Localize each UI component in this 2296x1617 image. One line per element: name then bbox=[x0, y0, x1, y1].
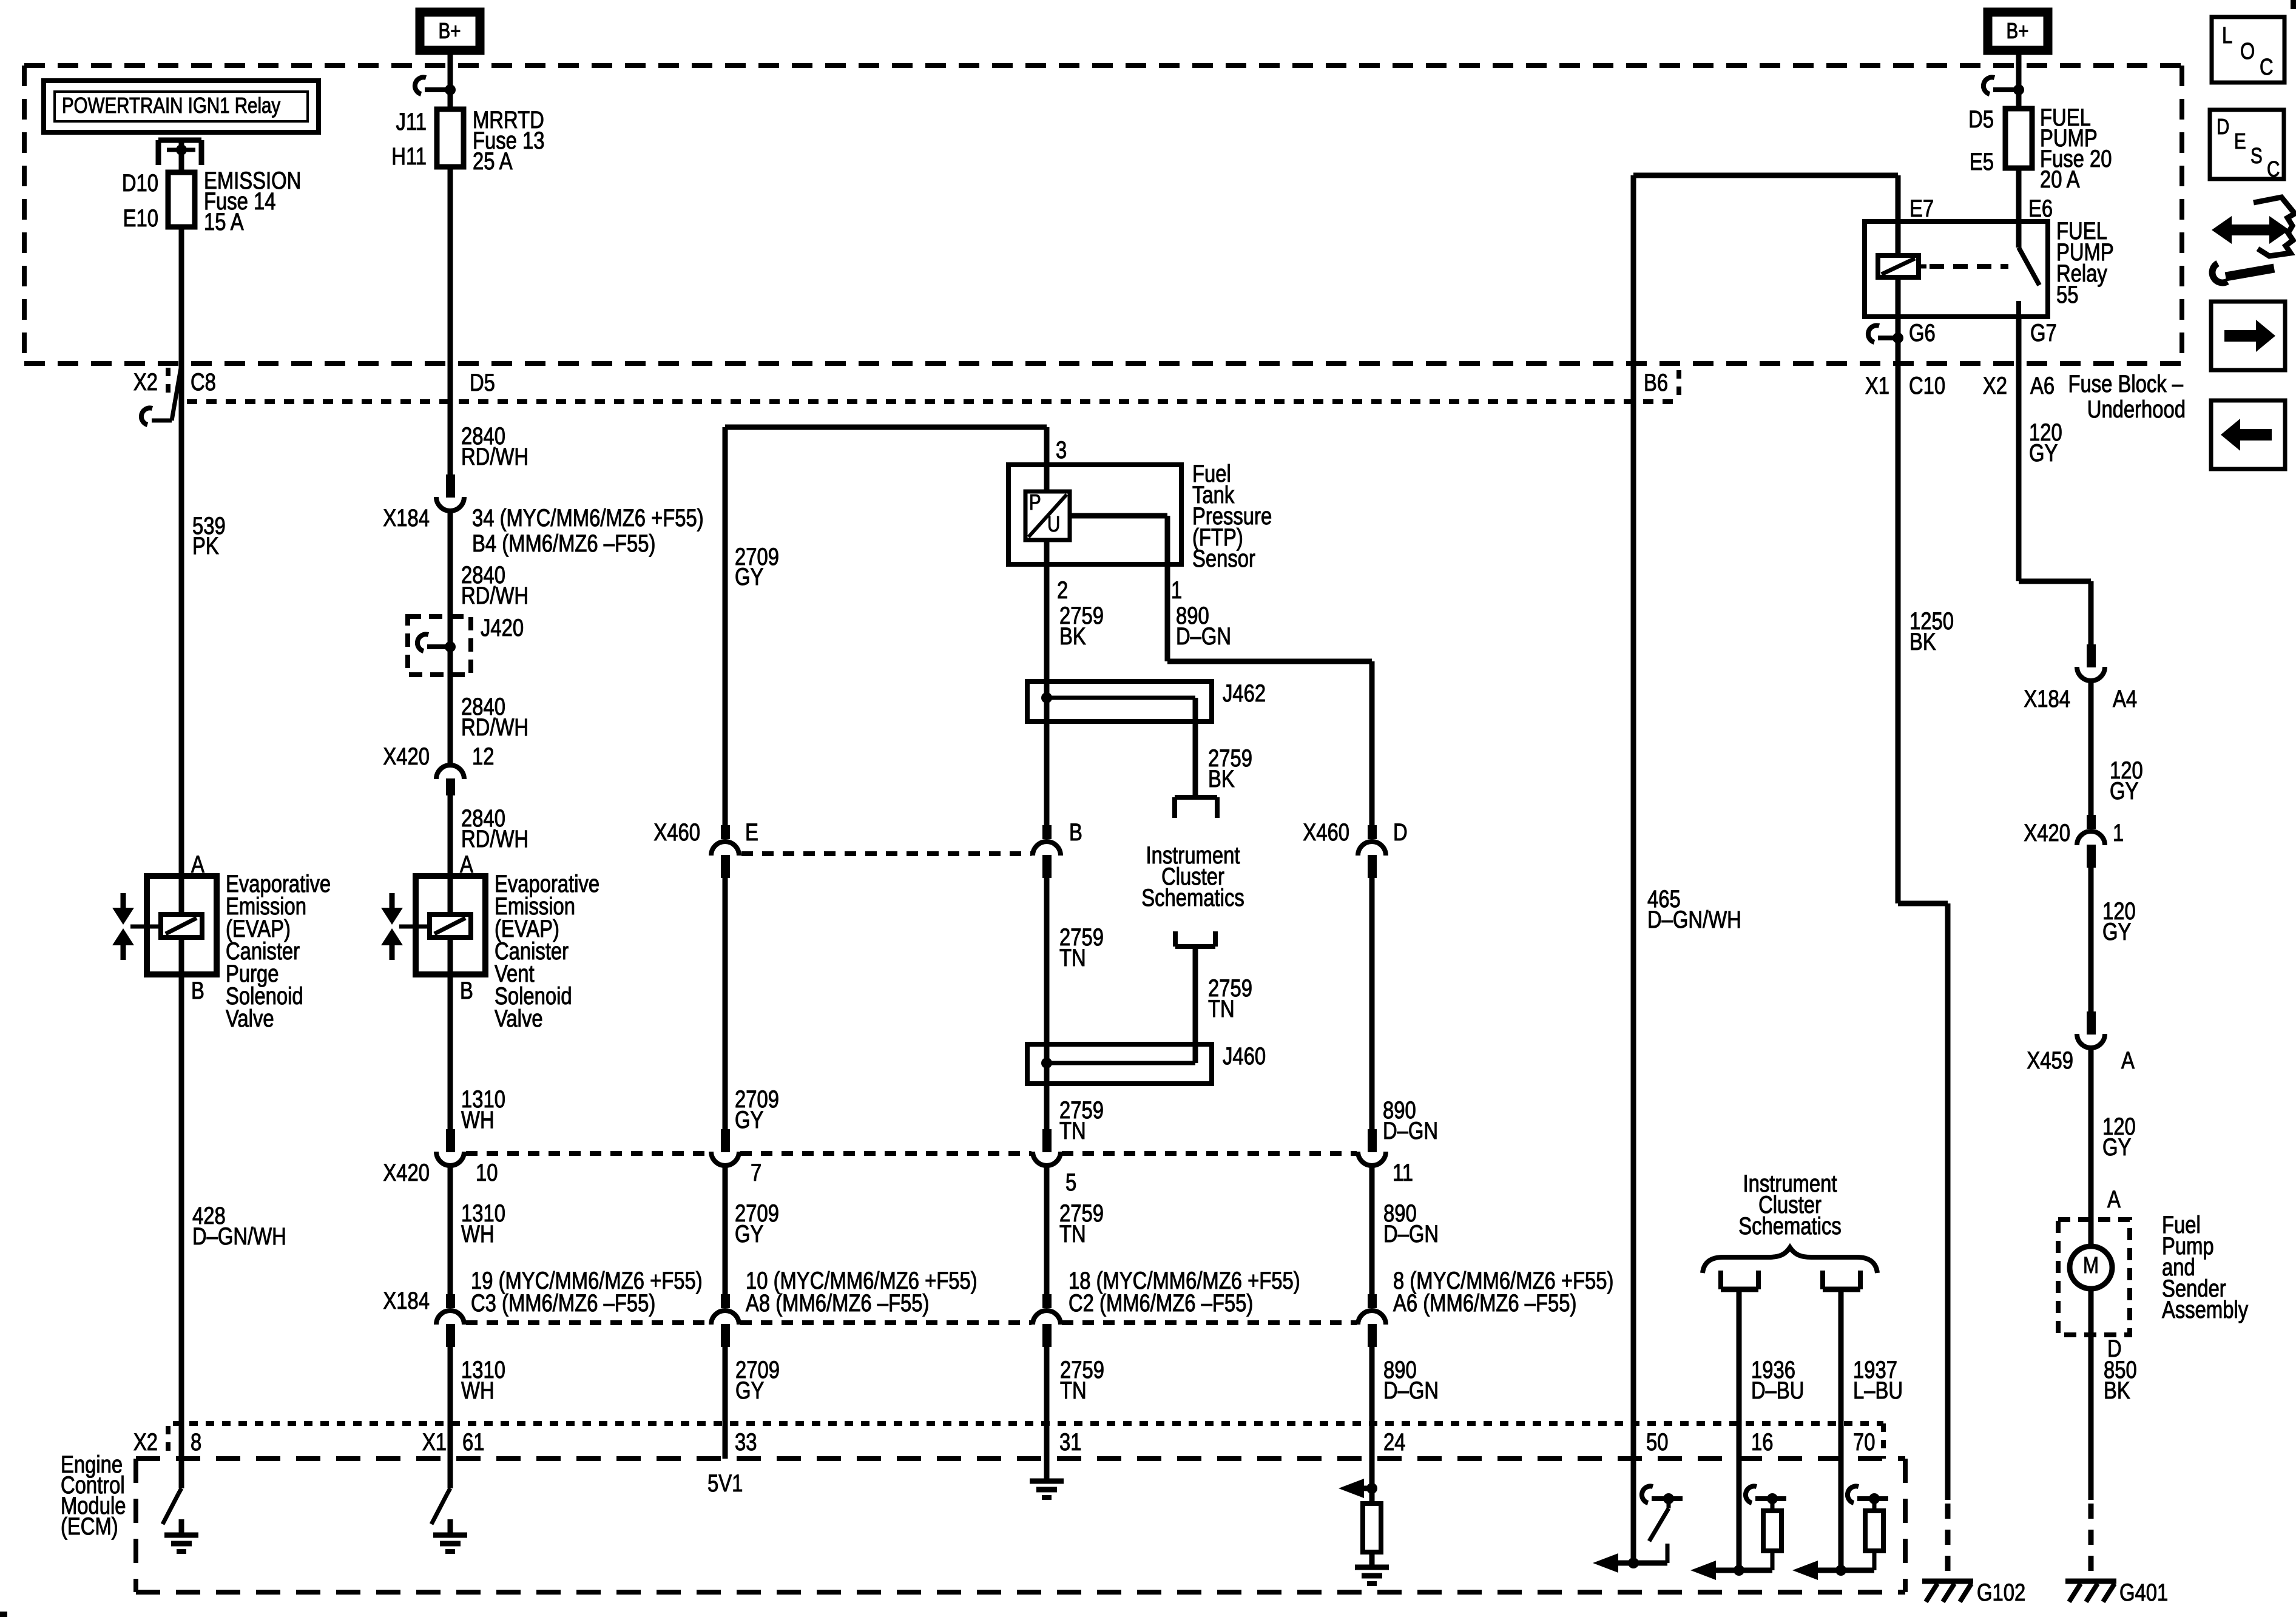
fuel pump motor symbol bbox=[2070, 1246, 2112, 1289]
fuse F20 FUEL PUMP Fuse 20 20A bbox=[2005, 109, 2032, 168]
svg-text:C: C bbox=[2260, 55, 2274, 80]
wire FTP pin 1 890 D-GN jog bbox=[1070, 513, 1167, 519]
svg-text:D–GN: D–GN bbox=[1383, 1220, 1439, 1247]
instrument cluster brace bbox=[1703, 1247, 1877, 1273]
connector X2 C8 exit blade and curl bbox=[172, 365, 181, 420]
ECM internal switch at pin 61 bbox=[447, 1488, 450, 1494]
svg-text:Valve: Valve bbox=[495, 1005, 543, 1032]
svg-text:GY: GY bbox=[2102, 918, 2131, 945]
connector X460 pin E bbox=[721, 825, 730, 839]
svg-text:G401: G401 bbox=[2119, 1579, 2168, 1606]
separator dash right of B6 bbox=[1676, 370, 1681, 396]
svg-text:E10: E10 bbox=[123, 204, 158, 232]
svg-text:B+: B+ bbox=[2007, 18, 2029, 42]
svg-text:5: 5 bbox=[1065, 1169, 1076, 1196]
connector X184 pin A6 bbox=[1368, 1294, 1377, 1308]
connector X460 pin D bbox=[1368, 825, 1377, 839]
svg-text:D–GN: D–GN bbox=[1383, 1377, 1439, 1404]
svg-text:G6: G6 bbox=[1909, 319, 1936, 346]
svg-text:X459: X459 bbox=[2027, 1047, 2073, 1074]
svg-text:D10: D10 bbox=[122, 169, 158, 197]
svg-text:C8: C8 bbox=[191, 368, 216, 396]
ECM internal ground below pin 24 resistor bbox=[1369, 1551, 1375, 1567]
svg-text:B: B bbox=[1069, 819, 1082, 846]
instrument cluster branch terminal (upper) bbox=[1175, 795, 1217, 800]
svg-text:A6 (MM6/MZ6 –F55): A6 (MM6/MZ6 –F55) bbox=[1393, 1289, 1576, 1317]
ECM internal ground at pin 8 bbox=[179, 1519, 184, 1535]
svg-text:GY: GY bbox=[735, 1106, 763, 1133]
internal bus bracket above fuse 14 bbox=[156, 140, 161, 165]
wire 890 D-GN middle bbox=[1369, 878, 1375, 1130]
svg-text:TN: TN bbox=[1059, 944, 1086, 971]
wire 120 GY to fuel pump bbox=[2088, 1050, 2094, 1246]
svg-text:X184: X184 bbox=[2024, 685, 2070, 712]
svg-text:Schematics: Schematics bbox=[1738, 1212, 1841, 1240]
wire 1250 BK from G6 to C10 bbox=[1896, 317, 1901, 903]
instrument cluster terminal 1937 bbox=[1820, 1271, 1825, 1289]
svg-text:7: 7 bbox=[751, 1159, 761, 1186]
wire 1310 WH upper bbox=[448, 974, 453, 1130]
svg-text:16: 16 bbox=[1751, 1428, 1773, 1456]
svg-text:D–GN: D–GN bbox=[1176, 623, 1231, 650]
svg-text:1: 1 bbox=[1171, 576, 1182, 604]
svg-text:C10: C10 bbox=[1909, 372, 1945, 399]
svg-text:Fuse Block –: Fuse Block – bbox=[2068, 370, 2183, 397]
ECM internal ground at pin 31 bbox=[1044, 1465, 1050, 1481]
connector X460 pin B bbox=[1042, 825, 1052, 839]
svg-text:H11: H11 bbox=[391, 143, 427, 170]
svg-text:TN: TN bbox=[1059, 1220, 1086, 1247]
svg-text:RD/WH: RD/WH bbox=[461, 825, 528, 852]
svg-text:RD/WH: RD/WH bbox=[461, 443, 528, 470]
svg-text:TN: TN bbox=[1208, 995, 1235, 1022]
svg-text:55: 55 bbox=[2056, 281, 2078, 308]
wire 2840 RD/WH to splice J420 bbox=[448, 511, 453, 619]
wire 2759 TN branch from instrument cluster bbox=[1193, 947, 1198, 1063]
wire 2840 RD/WH to connector X420 12 bbox=[448, 675, 453, 764]
svg-text:A6: A6 bbox=[2030, 372, 2055, 399]
bus junction at J11 (curl+dot) bbox=[425, 87, 450, 92]
splice J460 internal bus bbox=[1047, 1061, 1195, 1065]
svg-text:3: 3 bbox=[1056, 436, 1067, 464]
svg-text:25 A: 25 A bbox=[473, 147, 513, 175]
svg-text:BK: BK bbox=[2104, 1377, 2130, 1404]
svg-text:J462: J462 bbox=[1223, 680, 1266, 707]
connector X184 pin 34 bbox=[446, 474, 455, 498]
svg-text:5V1: 5V1 bbox=[707, 1470, 743, 1497]
ECM pin 8 entry bbox=[179, 1423, 184, 1488]
svg-text:GY: GY bbox=[735, 563, 763, 590]
instrument cluster terminal 1936 bbox=[1718, 1271, 1723, 1289]
EVAP canister vent solenoid valve bbox=[416, 876, 485, 974]
svg-text:J460: J460 bbox=[1223, 1042, 1266, 1070]
svg-text:1: 1 bbox=[2113, 819, 2124, 846]
svg-text:33: 33 bbox=[735, 1428, 757, 1456]
svg-text:12: 12 bbox=[472, 743, 494, 770]
svg-text:15 A: 15 A bbox=[204, 208, 244, 235]
splice J420 dashed box bbox=[408, 616, 471, 675]
svg-text:8: 8 bbox=[191, 1428, 201, 1456]
connector X420 pin 7 bbox=[721, 1129, 730, 1152]
wire 2709 GY from FTP pin 3 run bbox=[725, 425, 1047, 430]
svg-text:A4: A4 bbox=[2113, 685, 2137, 712]
svg-text:D–BU: D–BU bbox=[1751, 1377, 1804, 1404]
svg-text:WH: WH bbox=[461, 1106, 495, 1133]
svg-text:RD/WH: RD/WH bbox=[461, 582, 528, 609]
svg-text:D: D bbox=[1393, 819, 1408, 846]
svg-text:B: B bbox=[460, 977, 473, 1004]
svg-text:TN: TN bbox=[1060, 1377, 1087, 1404]
svg-text:A8 (MM6/MZ6 –F55): A8 (MM6/MZ6 –F55) bbox=[746, 1289, 929, 1317]
svg-text:M: M bbox=[2083, 1253, 2099, 1278]
svg-text:X2: X2 bbox=[133, 1428, 158, 1456]
ECM pin 50 node arrow and junction bbox=[1602, 1561, 1667, 1566]
page corner mark bottom-left bbox=[0, 1612, 7, 1617]
connector X184 pin A4 bbox=[2087, 644, 2096, 667]
X460 row dashed line E to B bbox=[741, 851, 1032, 856]
svg-text:PK: PK bbox=[192, 532, 219, 559]
wire fuse 13 to connector D5 and X184 bbox=[448, 167, 453, 476]
ECM internal resistor at pin 70 bbox=[1838, 1423, 1844, 1570]
svg-text:A: A bbox=[2121, 1047, 2135, 1074]
svg-text:X184: X184 bbox=[383, 504, 430, 532]
wire bus to fuse 14 bbox=[179, 140, 184, 172]
svg-text:X420: X420 bbox=[2024, 819, 2070, 846]
wire 2709 GY lower bbox=[723, 1167, 728, 1295]
bus junction at D5-right (curl+dot) bbox=[1993, 87, 2019, 92]
fuel pump relay switch blade bbox=[2016, 168, 2022, 248]
wire 850 BK from fuel pump D bbox=[2088, 1289, 2094, 1500]
svg-text:X1: X1 bbox=[422, 1428, 447, 1456]
power feed B+ (right) bbox=[1988, 12, 2048, 50]
svg-text:G102: G102 bbox=[1977, 1579, 2025, 1606]
wire 2759 TN to connector X420 5 bbox=[1044, 1084, 1050, 1130]
svg-text:BK: BK bbox=[1208, 765, 1235, 792]
svg-text:Sensor: Sensor bbox=[1192, 545, 1255, 572]
wire 2759 BK branch to instrument cluster bbox=[1193, 698, 1198, 798]
wire 890 D-GN to ECM pin 24 bbox=[1369, 1347, 1375, 1488]
connector X420 pin 12 bbox=[436, 765, 464, 779]
svg-text:X184: X184 bbox=[383, 1287, 430, 1314]
svg-text:BK: BK bbox=[1909, 628, 1936, 655]
forward navigation arrow icon bbox=[2211, 302, 2285, 370]
svg-text:A: A bbox=[460, 851, 473, 878]
svg-text:20 A: 20 A bbox=[2040, 166, 2080, 193]
svg-text:X420: X420 bbox=[383, 1159, 430, 1186]
fuel tank pressure FTP sensor box bbox=[1008, 465, 1181, 564]
EVAP canister purge solenoid valve bbox=[147, 876, 217, 974]
engine control module dashed box bbox=[136, 1456, 1905, 1461]
splice J460 box bbox=[1027, 1044, 1212, 1084]
wire 2709 GY to ECM pin 33 bbox=[723, 1347, 728, 1459]
wire 2759 TN to ECM pin 31 bbox=[1044, 1347, 1050, 1481]
svg-text:L–BU: L–BU bbox=[1853, 1377, 1903, 1404]
svg-text:BK: BK bbox=[1059, 623, 1086, 650]
svg-text:B+: B+ bbox=[439, 18, 461, 42]
svg-text:D–GN/WH: D–GN/WH bbox=[1647, 906, 1741, 933]
svg-text:GY: GY bbox=[2029, 439, 2058, 467]
ECM internal ground at pin 61 bbox=[448, 1519, 453, 1535]
svg-text:WH: WH bbox=[461, 1377, 495, 1404]
svg-text:C3 (MM6/MZ6 –F55): C3 (MM6/MZ6 –F55) bbox=[471, 1289, 655, 1317]
svg-text:E5: E5 bbox=[1970, 148, 1994, 175]
chassis ground G102 bbox=[1922, 1579, 1973, 1584]
page corner mark top-right bbox=[2291, 0, 2296, 9]
svg-text:A: A bbox=[2107, 1186, 2121, 1213]
svg-text:TN: TN bbox=[1059, 1117, 1086, 1144]
svg-text:GY: GY bbox=[2102, 1133, 2131, 1161]
svg-text:J420: J420 bbox=[481, 614, 524, 641]
DESC navigation icon bbox=[2210, 110, 2284, 179]
power feed B+ (left) bbox=[420, 12, 480, 50]
svg-text:RD/WH: RD/WH bbox=[461, 714, 528, 741]
ECM internal switch at pin 50 bbox=[1652, 1496, 1683, 1501]
fuse block underhood dashed boundary box bbox=[24, 63, 2182, 68]
back navigation arrow icon bbox=[2211, 400, 2285, 469]
svg-text:WH: WH bbox=[461, 1220, 495, 1247]
svg-text:G7: G7 bbox=[2030, 319, 2057, 346]
svg-text:O: O bbox=[2240, 39, 2255, 64]
wire 2840 RD/WH to EVAP vent solenoid bbox=[448, 795, 453, 876]
ECM pin 24 internal node arrow bbox=[1339, 1479, 1364, 1498]
fuse F13 MRRTD Fuse 13 25A bbox=[437, 109, 464, 167]
svg-text:Valve: Valve bbox=[226, 1005, 274, 1032]
svg-text:C: C bbox=[2267, 157, 2280, 181]
wire B+ right down to fuse 20 bbox=[2016, 50, 2022, 109]
connector row X184 dashed line bbox=[466, 1320, 710, 1325]
svg-text:A: A bbox=[191, 851, 204, 878]
svg-text:11: 11 bbox=[1393, 1159, 1413, 1186]
splice J420 tee and dot bbox=[427, 644, 450, 649]
separator dots between X2 and 8 bbox=[166, 1426, 171, 1457]
svg-text:D–GN: D–GN bbox=[1383, 1117, 1438, 1144]
svg-text:E7: E7 bbox=[1909, 195, 1934, 222]
connector X184 pin C2 bbox=[1042, 1294, 1052, 1308]
svg-text:D5: D5 bbox=[470, 369, 495, 396]
svg-text:E6: E6 bbox=[2028, 195, 2053, 222]
svg-text:D–GN/WH: D–GN/WH bbox=[192, 1223, 286, 1250]
svg-text:X420: X420 bbox=[383, 743, 430, 770]
ECM connector row step at pin 70 bbox=[1881, 1423, 1886, 1459]
chassis ground G401 bbox=[2065, 1579, 2116, 1584]
connector X184 pin C3 bbox=[446, 1294, 455, 1308]
wire 1937 L-BU bbox=[1838, 1289, 1844, 1423]
fuel pump relay 55 box bbox=[1865, 221, 2048, 317]
svg-text:Assembly: Assembly bbox=[2162, 1296, 2249, 1323]
svg-text:X2: X2 bbox=[133, 368, 158, 396]
ECM internal resistor at pin 24 bbox=[1369, 1488, 1375, 1504]
ECM internal switch at pin 8 bbox=[178, 1488, 181, 1494]
svg-text:61: 61 bbox=[462, 1428, 484, 1456]
svg-text:S: S bbox=[2250, 143, 2263, 167]
svg-text:E: E bbox=[745, 819, 758, 846]
ECM connector row dotted line bbox=[173, 1421, 1883, 1426]
relay pin G6 junction bbox=[1878, 336, 1898, 340]
wire 1310 WH middle bbox=[448, 1167, 453, 1295]
wire 428 D-GN/WH bbox=[179, 974, 184, 1423]
ECM internal resistor at pin 16 bbox=[1737, 1423, 1742, 1570]
connector X420 pin 1 bbox=[2087, 815, 2096, 829]
splice J462 box bbox=[1027, 681, 1212, 721]
connector X420 pin 5 bbox=[1042, 1129, 1052, 1152]
fuel pump relay coil bbox=[1896, 175, 1901, 255]
ground lead dashes to G102 bbox=[1945, 1504, 1951, 1578]
wire 120 GY to X459 A bbox=[2088, 868, 2094, 1011]
connector X420 pin 11 bbox=[1368, 1129, 1377, 1152]
svg-text:GY: GY bbox=[735, 1220, 763, 1247]
fuse block lower connector boundary (fine dashed) bbox=[187, 399, 1675, 404]
wire 120 GY to X420 1 bbox=[2088, 683, 2094, 815]
ground lead dashes to G401 bbox=[2088, 1504, 2094, 1578]
POWERTRAIN IGN1 Relay label box bbox=[44, 81, 319, 132]
wire 465 D-GN/WH feed from relay coil bbox=[1633, 173, 1898, 178]
svg-text:34 (MYC/MM6/MZ6 +F55): 34 (MYC/MM6/MZ6 +F55) bbox=[472, 504, 704, 532]
svg-text:Underhood: Underhood bbox=[2087, 396, 2186, 423]
svg-text:10: 10 bbox=[476, 1159, 498, 1186]
svg-text:B4 (MM6/MZ6 –F55): B4 (MM6/MZ6 –F55) bbox=[472, 530, 655, 557]
LOC navigation icon bbox=[2212, 17, 2284, 83]
connector X459 pin A bbox=[2087, 1011, 2096, 1035]
FTP sensor P/U transducer symbol bbox=[1025, 491, 1070, 540]
svg-text:70: 70 bbox=[1853, 1428, 1875, 1456]
svg-text:U: U bbox=[1047, 511, 1060, 536]
wire 890 D-GN lower bbox=[1369, 1167, 1375, 1295]
separator dash between X2 and C8 bbox=[166, 368, 171, 396]
svg-text:D5: D5 bbox=[1968, 106, 1994, 133]
svg-text:POWERTRAIN IGN1 Relay: POWERTRAIN IGN1 Relay bbox=[62, 93, 281, 117]
svg-text:X460: X460 bbox=[653, 819, 700, 846]
splice J462 internal bus bbox=[1047, 696, 1195, 700]
wire 2759 TN middle bbox=[1044, 1167, 1050, 1295]
wire 2759 TN to splice J460 bbox=[1044, 878, 1050, 1044]
svg-text:P: P bbox=[1029, 490, 1041, 514]
fuse F14 EMISSION Fuse 14 15A bbox=[168, 172, 195, 227]
wire fuse 14 to connector C8 bbox=[179, 227, 184, 422]
wire FTP pin 3 bbox=[1044, 427, 1050, 491]
svg-text:B6: B6 bbox=[1644, 369, 1668, 396]
wire 539 PK bbox=[179, 422, 184, 876]
svg-text:(ECM): (ECM) bbox=[61, 1513, 118, 1540]
connector X184 pin A8 bbox=[721, 1294, 730, 1308]
svg-text:X1: X1 bbox=[1865, 372, 1889, 399]
fuel pump relay coil-contact dashed link bbox=[1919, 265, 1926, 269]
connector X420 pin 10 bbox=[446, 1129, 455, 1152]
svg-text:X460: X460 bbox=[1303, 819, 1349, 846]
svg-text:2: 2 bbox=[1057, 576, 1068, 604]
svg-text:C2 (MM6/MZ6 –F55): C2 (MM6/MZ6 –F55) bbox=[1069, 1289, 1253, 1317]
wrench double-arrow icon bbox=[2254, 197, 2295, 256]
svg-text:50: 50 bbox=[1646, 1428, 1668, 1456]
svg-text:GY: GY bbox=[2110, 777, 2138, 805]
svg-text:L: L bbox=[2222, 23, 2232, 49]
instrument cluster branch terminal (lower) bbox=[1173, 931, 1178, 947]
wire 1936 D-BU bbox=[1737, 1289, 1742, 1423]
svg-text:J11: J11 bbox=[396, 108, 427, 135]
wire 1310 WH lower bbox=[448, 1347, 453, 1488]
svg-text:Schematics: Schematics bbox=[1141, 884, 1244, 911]
svg-text:D: D bbox=[2217, 114, 2229, 138]
svg-text:24: 24 bbox=[1383, 1428, 1405, 1456]
connector row X420 dashed line bbox=[466, 1151, 710, 1156]
wire 2759 BK to connector X460 B bbox=[1044, 721, 1050, 826]
svg-text:E: E bbox=[2234, 129, 2246, 153]
wire 120 GY from G7 bbox=[2016, 317, 2022, 581]
svg-text:X2: X2 bbox=[1983, 372, 2007, 399]
wire FTP pin 2 2759 BK bbox=[1044, 540, 1050, 681]
wire 2709 GY middle bbox=[723, 878, 728, 1130]
fuel pump and sender assembly dashed box bbox=[2058, 1220, 2130, 1335]
wire B+ left down to fuse 13 bbox=[448, 50, 453, 109]
svg-text:B: B bbox=[191, 977, 204, 1004]
svg-text:31: 31 bbox=[1059, 1428, 1081, 1456]
svg-text:GY: GY bbox=[735, 1377, 764, 1404]
